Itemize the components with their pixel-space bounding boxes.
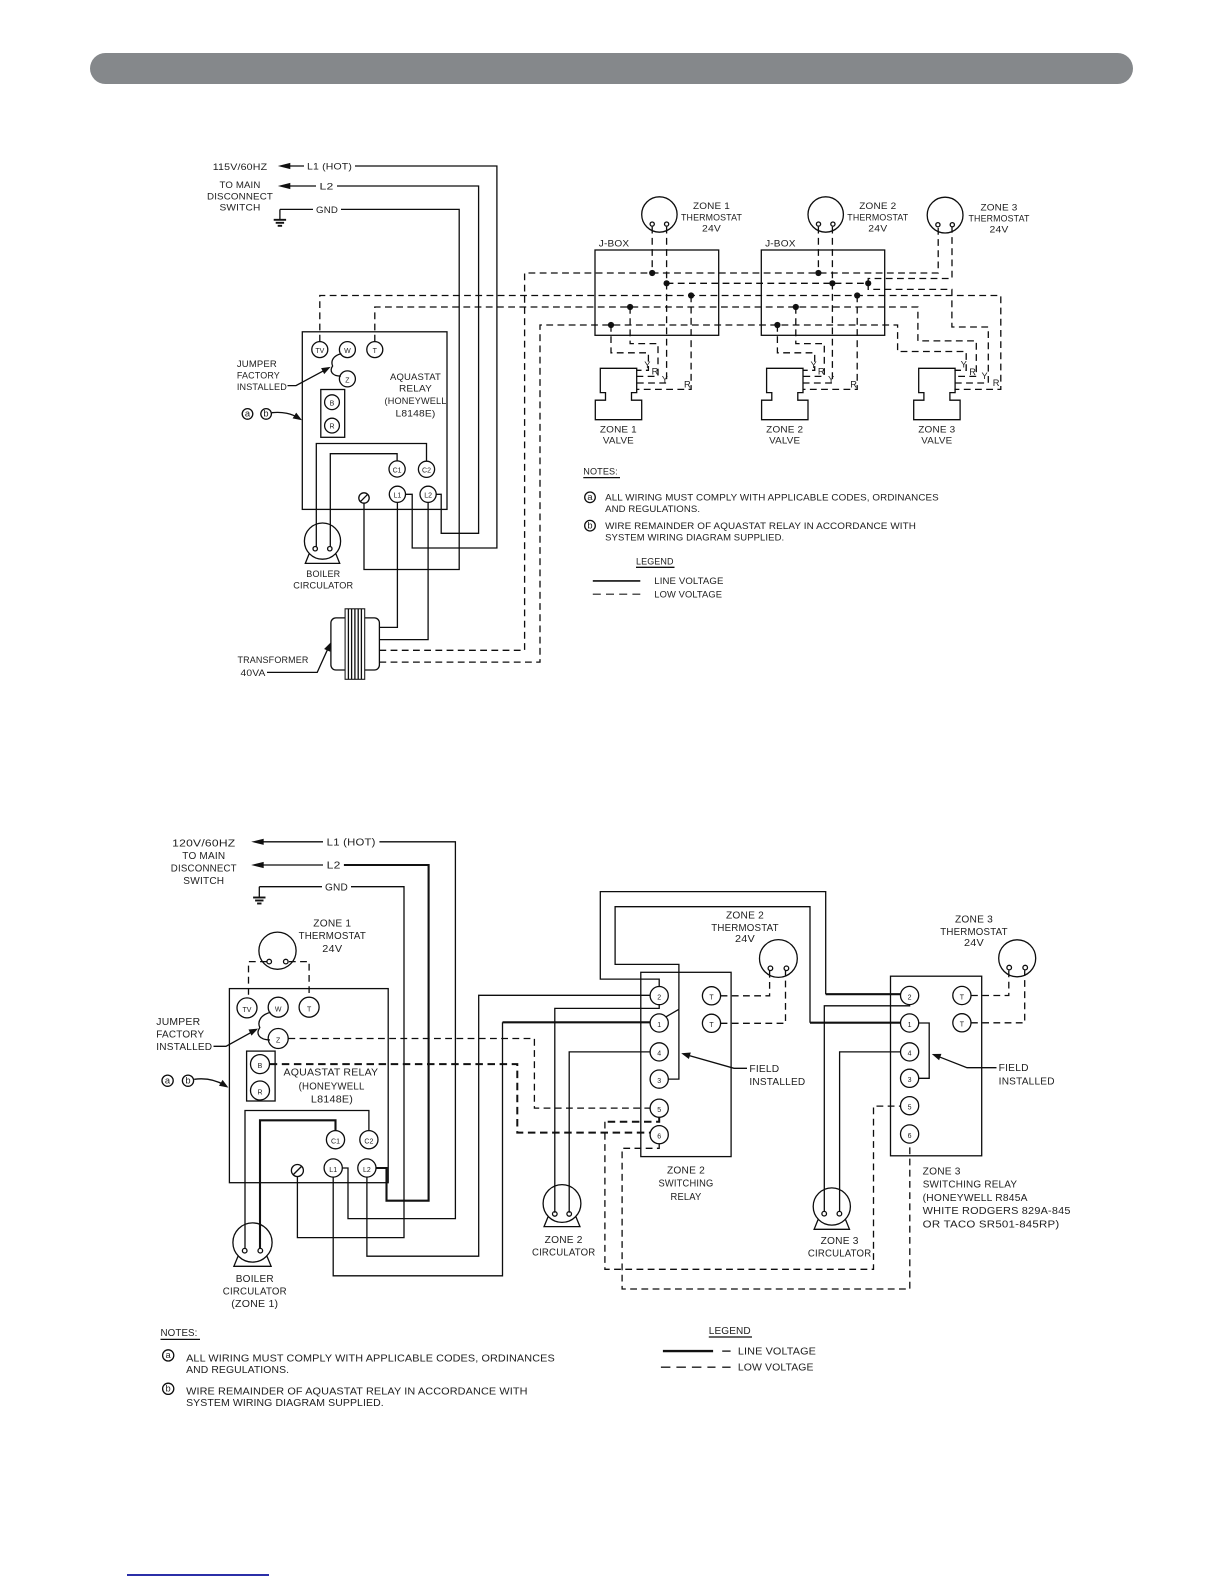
svg-text:Y: Y bbox=[662, 375, 668, 385]
terminal T bbox=[367, 342, 383, 358]
wire thermostat2 left to 24V line bbox=[817, 227, 819, 273]
terminal strip B R box bottom bbox=[247, 1051, 276, 1101]
svg-text:VALVE: VALVE bbox=[603, 436, 634, 446]
svg-text:THERMOSTAT: THERMOSTAT bbox=[969, 214, 1030, 224]
wire valve2 R to TV line bbox=[803, 296, 857, 390]
svg-text:INSTALLED: INSTALLED bbox=[156, 1042, 212, 1053]
svg-text:R: R bbox=[684, 379, 691, 389]
svg-text:Y: Y bbox=[811, 360, 817, 370]
terminal TV bottom bbox=[237, 998, 257, 1018]
svg-text:THERMOSTAT: THERMOSTAT bbox=[847, 213, 908, 223]
boiler circulator pump bbox=[304, 523, 340, 559]
terminal Z bottom bbox=[268, 1029, 288, 1049]
terminal R bbox=[325, 418, 340, 433]
svg-text:SWITCH: SWITCH bbox=[183, 876, 224, 887]
junction dot common bus corner bbox=[865, 280, 871, 286]
terminal B bottom bbox=[251, 1055, 270, 1074]
terminal R bottom bbox=[251, 1081, 270, 1100]
svg-text:OR TACO SR501-845RP): OR TACO SR501-845RP) bbox=[923, 1219, 1060, 1230]
jumper W-Z factory installed bbox=[331, 354, 341, 377]
zone3 terminal 4 bbox=[901, 1043, 919, 1061]
footer rule (blue) bbox=[127, 1574, 269, 1576]
junction dot valve2 R on TV line bbox=[854, 292, 860, 298]
svg-text:ZONE 1: ZONE 1 bbox=[313, 919, 351, 930]
svg-text:3: 3 bbox=[657, 1078, 661, 1085]
wire zone3 circulator to terminal 4 bbox=[840, 1052, 901, 1212]
wire zone2 T upper to thermostat2 bbox=[721, 971, 770, 996]
svg-text:LOW VOLTAGE: LOW VOLTAGE bbox=[738, 1363, 814, 1374]
zone2 terminal 6 bbox=[650, 1126, 668, 1144]
svg-text:CIRCULATOR: CIRCULATOR bbox=[223, 1286, 287, 1297]
wire L1 (HOT) feed bottom bbox=[251, 839, 264, 845]
wire C1 to boiler circulator bbox=[330, 454, 397, 547]
svg-text:W: W bbox=[344, 348, 351, 355]
wire TV line to valves R bbox=[320, 296, 1001, 390]
svg-text:AND REGULATIONS.: AND REGULATIONS. bbox=[186, 1365, 289, 1376]
svg-text:LINE VOLTAGE: LINE VOLTAGE bbox=[738, 1347, 816, 1358]
svg-text:TRANSFORMER: TRANSFORMER bbox=[238, 655, 309, 665]
note markers a b with leader arrow bbox=[242, 409, 253, 420]
zone 3 thermostat TSTAT3 bbox=[927, 197, 963, 233]
zone3 terminal 6 bbox=[901, 1125, 919, 1143]
terminal B bbox=[325, 395, 340, 410]
svg-text:THERMOSTAT: THERMOSTAT bbox=[940, 927, 1007, 938]
svg-text:L8148E): L8148E) bbox=[396, 409, 436, 419]
svg-text:WHITE RODGERS 829A-845: WHITE RODGERS 829A-845 bbox=[923, 1206, 1071, 1217]
svg-text:INSTALLED: INSTALLED bbox=[749, 1077, 805, 1088]
wire zone2 T lower to thermostat2 bbox=[721, 971, 786, 1024]
svg-text:FACTORY: FACTORY bbox=[237, 370, 280, 380]
zone 1 thermostat bottom TSTAT1 bbox=[259, 932, 296, 969]
ground symbol top bbox=[279, 209, 281, 219]
zone3 terminal 3 bbox=[901, 1069, 919, 1087]
svg-text:ZONE 3: ZONE 3 bbox=[923, 1166, 961, 1177]
wire GND feed top bbox=[280, 208, 313, 210]
svg-text:40VA: 40VA bbox=[241, 668, 267, 678]
zone 3 switching relay box bbox=[891, 976, 982, 1156]
terminal W bbox=[339, 342, 355, 358]
svg-text:CIRCULATOR: CIRCULATOR bbox=[532, 1248, 596, 1259]
svg-text:ALL WIRING MUST COMPLY WITH AP: ALL WIRING MUST COMPLY WITH APPLICABLE C… bbox=[186, 1353, 555, 1364]
svg-text:ZONE 2: ZONE 2 bbox=[726, 910, 764, 921]
svg-text:LINE VOLTAGE: LINE VOLTAGE bbox=[654, 576, 723, 587]
svg-text:TV: TV bbox=[243, 1007, 252, 1014]
wire valve1 R to TV line bbox=[637, 296, 691, 390]
svg-text:5: 5 bbox=[908, 1105, 912, 1112]
svg-text:SYSTEM WIRING DIAGRAM SUPPLIED: SYSTEM WIRING DIAGRAM SUPPLIED. bbox=[186, 1398, 384, 1409]
legend low voltage sample bottom bbox=[661, 1366, 716, 1368]
zone3 terminal T lower bbox=[953, 1014, 971, 1032]
note a marker top bbox=[585, 492, 596, 503]
wire C2 to boiler circulator bottom bbox=[245, 1111, 369, 1249]
zone2 terminal 3 bbox=[650, 1070, 668, 1088]
svg-text:ZONE 2: ZONE 2 bbox=[766, 424, 803, 434]
svg-text:a: a bbox=[166, 1350, 172, 1360]
svg-text:L2: L2 bbox=[424, 493, 432, 500]
legend low voltage sample top bbox=[593, 593, 641, 595]
terminal L1 bottom bbox=[324, 1159, 342, 1177]
svg-text:24V: 24V bbox=[964, 938, 984, 949]
svg-text:T: T bbox=[960, 1022, 965, 1029]
zone 1 valve V1 bbox=[595, 368, 641, 419]
wire valve1 Y to common line bbox=[611, 325, 648, 370]
wire zone3 terminal2 to zone3 circulator bbox=[824, 1005, 909, 1212]
J-BOX 2 junction box bbox=[761, 250, 884, 335]
svg-text:5: 5 bbox=[657, 1107, 661, 1114]
ground screw terminal bbox=[359, 493, 369, 503]
wire zone3 jumper terminal1 to terminal3 bbox=[919, 1023, 930, 1078]
wire thermostat common bus t1 to t2 bbox=[667, 282, 869, 284]
ground symbol bottom bbox=[258, 887, 260, 897]
zone 1 thermostat TSTAT1 bbox=[642, 197, 677, 232]
wire zone2 circulator to terminal 4 bbox=[569, 1052, 650, 1213]
terminal L2 bbox=[420, 486, 436, 502]
svg-text:SWITCH: SWITCH bbox=[220, 202, 261, 212]
svg-text:FIELD: FIELD bbox=[999, 1063, 1029, 1074]
junction dot valve2 R2 on T line bbox=[793, 304, 799, 310]
svg-text:ZONE 2: ZONE 2 bbox=[667, 1165, 705, 1176]
svg-text:R: R bbox=[969, 367, 976, 377]
svg-text:24V: 24V bbox=[322, 944, 342, 955]
svg-text:T: T bbox=[709, 995, 714, 1002]
svg-text:GND: GND bbox=[325, 882, 348, 893]
svg-text:C1: C1 bbox=[331, 1139, 340, 1146]
terminal Z bbox=[339, 371, 355, 387]
wire zone2 terminal5 chain to zone3 terminal5 bbox=[605, 1117, 659, 1121]
svg-text:(ZONE 1): (ZONE 1) bbox=[231, 1299, 278, 1310]
svg-text:1: 1 bbox=[908, 1022, 912, 1029]
svg-text:LEGEND: LEGEND bbox=[636, 556, 674, 567]
wire valve1 R2 to T line bbox=[630, 307, 658, 376]
zone 2 thermostat bottom TSTAT2 bbox=[760, 940, 798, 978]
note a marker bottom bbox=[163, 1350, 174, 1361]
svg-text:B: B bbox=[330, 400, 335, 407]
svg-text:L2: L2 bbox=[320, 181, 334, 191]
note markers a b bottom with leader arrow bbox=[162, 1075, 173, 1086]
svg-text:a: a bbox=[245, 409, 251, 419]
svg-text:4: 4 bbox=[657, 1051, 661, 1058]
svg-text:J-BOX: J-BOX bbox=[765, 238, 796, 248]
svg-text:FACTORY: FACTORY bbox=[156, 1030, 204, 1041]
wire zone2 terminal6 chain to zone3 terminal6 bbox=[622, 1143, 910, 1289]
wire Z to zone2 relay terminal 5 bbox=[288, 1039, 650, 1109]
boiler circulator pump bottom (zone 1) bbox=[233, 1223, 272, 1262]
note b marker bottom bbox=[163, 1383, 174, 1394]
svg-text:1: 1 bbox=[657, 1022, 661, 1029]
svg-text:L2: L2 bbox=[363, 1167, 371, 1174]
svg-text:NOTES:: NOTES: bbox=[161, 1328, 198, 1339]
wire T line to valves R bbox=[375, 307, 977, 376]
svg-text:24V: 24V bbox=[990, 224, 1010, 234]
svg-text:CIRCULATOR: CIRCULATOR bbox=[293, 580, 353, 590]
svg-text:Y: Y bbox=[644, 360, 650, 370]
wire L1 to transformer primary bbox=[379, 502, 397, 627]
terminal C1 bbox=[389, 461, 405, 477]
wire thermostat1 right to T bbox=[289, 962, 309, 998]
svg-text:T: T bbox=[307, 1006, 312, 1013]
svg-text:R: R bbox=[818, 367, 825, 377]
legend line voltage sample top bbox=[593, 580, 641, 582]
svg-text:C2: C2 bbox=[364, 1139, 373, 1146]
svg-text:AQUASTAT: AQUASTAT bbox=[390, 372, 441, 382]
svg-text:INSTALLED: INSTALLED bbox=[999, 1076, 1055, 1087]
note b marker top bbox=[585, 520, 596, 531]
svg-text:a: a bbox=[587, 492, 593, 502]
junction dot t2-left bbox=[815, 270, 821, 276]
legend line voltage sample bottom bbox=[663, 1350, 713, 1352]
wire neutral chain zone2 to zone3 bbox=[600, 892, 825, 995]
svg-text:CIRCULATOR: CIRCULATOR bbox=[808, 1248, 872, 1259]
svg-text:R: R bbox=[257, 1089, 262, 1096]
wire common bus to thermostat3 right bbox=[868, 227, 952, 284]
svg-text:6: 6 bbox=[657, 1134, 661, 1141]
wire zone2 terminal2 to zone2 circulator bbox=[555, 1005, 659, 1213]
zone2 terminal 5 bbox=[650, 1099, 668, 1117]
svg-text:THERMOSTAT: THERMOSTAT bbox=[711, 923, 778, 934]
wire L2 feed top bbox=[278, 183, 291, 189]
terminal T bottom bbox=[299, 997, 319, 1017]
aquastat relay U1 box bottom bbox=[229, 989, 388, 1183]
svg-text:ZONE 3: ZONE 3 bbox=[821, 1236, 859, 1247]
svg-text:ZONE 1: ZONE 1 bbox=[693, 201, 730, 211]
svg-text:6: 6 bbox=[908, 1133, 912, 1140]
svg-text:GND: GND bbox=[316, 205, 338, 215]
wire zone3 T lower to thermostat3 bbox=[971, 970, 1025, 1023]
svg-text:AND REGULATIONS.: AND REGULATIONS. bbox=[605, 504, 700, 515]
svg-text:R: R bbox=[652, 367, 659, 377]
zone3 terminal 2 bbox=[901, 986, 919, 1004]
svg-text:(HONEYWELL: (HONEYWELL bbox=[385, 396, 447, 406]
svg-text:RELAY: RELAY bbox=[399, 384, 432, 394]
svg-text:R: R bbox=[993, 378, 1000, 388]
svg-text:Z: Z bbox=[345, 377, 350, 384]
zone 2 valve V2 bbox=[762, 368, 808, 419]
svg-text:ZONE 3: ZONE 3 bbox=[955, 914, 993, 925]
svg-text:DISCONNECT: DISCONNECT bbox=[207, 191, 273, 201]
zone 3 valve V3 bbox=[914, 368, 960, 419]
svg-text:INSTALLED: INSTALLED bbox=[237, 382, 287, 392]
zone2 terminal T lower bbox=[702, 1014, 720, 1032]
svg-text:ALL WIRING MUST COMPLY WITH AP: ALL WIRING MUST COMPLY WITH APPLICABLE C… bbox=[605, 493, 939, 504]
svg-text:WIRE REMAINDER OF AQUASTAT REL: WIRE REMAINDER OF AQUASTAT RELAY IN ACCO… bbox=[186, 1386, 527, 1397]
svg-text:120V/60HZ: 120V/60HZ bbox=[172, 839, 235, 850]
svg-text:JUMPER: JUMPER bbox=[237, 359, 277, 369]
wire thermostat1 left to 24V line bbox=[651, 227, 653, 273]
svg-text:Y: Y bbox=[982, 371, 988, 381]
svg-text:FIELD: FIELD bbox=[749, 1064, 779, 1075]
svg-text:3: 3 bbox=[908, 1077, 912, 1084]
svg-text:T: T bbox=[709, 1022, 714, 1029]
wire zone3 T upper to thermostat3 bbox=[971, 970, 1009, 995]
svg-text:b: b bbox=[185, 1076, 190, 1086]
terminal TV bbox=[312, 342, 328, 358]
svg-text:Y: Y bbox=[961, 360, 967, 370]
svg-text:L1 (HOT): L1 (HOT) bbox=[327, 837, 376, 848]
svg-text:L8148E): L8148E) bbox=[311, 1094, 353, 1105]
svg-text:LOW VOLTAGE: LOW VOLTAGE bbox=[654, 590, 722, 601]
svg-text:T: T bbox=[960, 994, 965, 1001]
svg-text:a: a bbox=[165, 1076, 171, 1086]
junction dot t1-right bbox=[664, 280, 670, 286]
svg-text:THERMOSTAT: THERMOSTAT bbox=[681, 213, 742, 223]
svg-text:WIRE REMAINDER OF AQUASTAT REL: WIRE REMAINDER OF AQUASTAT RELAY IN ACCO… bbox=[605, 521, 916, 532]
svg-text:B: B bbox=[258, 1063, 263, 1070]
wire valve2 Y to common line bbox=[777, 325, 814, 370]
junction dot t2-right bbox=[829, 280, 835, 286]
svg-text:L1 (HOT): L1 (HOT) bbox=[307, 161, 352, 171]
zone2 terminal 1 bbox=[650, 1014, 668, 1032]
ground screw terminal bottom bbox=[291, 1165, 303, 1177]
svg-text:THERMOSTAT: THERMOSTAT bbox=[299, 931, 366, 942]
svg-text:R: R bbox=[850, 379, 857, 389]
svg-text:L1: L1 bbox=[329, 1167, 337, 1174]
junction dot valve1 Y on common line bbox=[608, 322, 614, 328]
wire common bus drop to valve3 Y bbox=[868, 283, 988, 383]
svg-text:L1: L1 bbox=[394, 493, 402, 500]
zone 3 circulator pump bbox=[813, 1188, 850, 1225]
svg-text:VALVE: VALVE bbox=[769, 436, 800, 446]
svg-text:BOILER: BOILER bbox=[306, 569, 340, 579]
terminal C1 bottom bbox=[326, 1131, 344, 1149]
svg-text:C1: C1 bbox=[393, 467, 402, 474]
terminal L1 bbox=[389, 486, 405, 502]
wire transformer secondary 2 common line to valves Y bbox=[379, 325, 966, 662]
wire transformer secondary 1 to 24V common line bbox=[379, 227, 938, 651]
svg-text:b: b bbox=[587, 520, 592, 530]
zone2 terminal 2 bbox=[650, 987, 668, 1005]
svg-text:RELAY: RELAY bbox=[671, 1192, 702, 1203]
wire hot chain zone2 to zone3 bbox=[666, 1009, 679, 1017]
svg-text:2: 2 bbox=[908, 994, 912, 1001]
svg-text:VALVE: VALVE bbox=[921, 436, 952, 446]
terminal C2 bottom bbox=[360, 1131, 378, 1149]
svg-text:2: 2 bbox=[657, 994, 661, 1001]
wire L2 to transformer primary bbox=[379, 502, 428, 639]
svg-text:24V: 24V bbox=[868, 224, 888, 234]
wire L1 (HOT) feed top bbox=[278, 163, 291, 169]
aquastat relay U1 box (Honeywell L8148E) bbox=[302, 332, 447, 510]
svg-text:DISCONNECT: DISCONNECT bbox=[171, 863, 237, 874]
zone 3 thermostat bottom TSTAT3 bbox=[999, 940, 1036, 977]
svg-text:ZONE 1: ZONE 1 bbox=[600, 424, 637, 434]
svg-text:24V: 24V bbox=[735, 934, 755, 945]
wire B to zone2 relay terminal 6 bbox=[270, 1064, 650, 1133]
zone2 terminal 4 bbox=[650, 1043, 668, 1061]
svg-text:TO MAIN: TO MAIN bbox=[220, 180, 261, 190]
svg-text:J-BOX: J-BOX bbox=[599, 238, 630, 248]
wire zone2 jumper terminal1 to terminal3 bbox=[668, 1009, 679, 1079]
terminal strip B R box bbox=[321, 390, 345, 438]
wire thermostat1 right to valve1 Y bbox=[637, 227, 667, 383]
junction dot valve2 Y on common line bbox=[774, 322, 780, 328]
wire GND feed bottom bbox=[259, 886, 322, 888]
zone 2 thermostat TSTAT2 bbox=[808, 197, 843, 232]
svg-text:C2: C2 bbox=[422, 468, 431, 475]
svg-text:(HONEYWELL R845A: (HONEYWELL R845A bbox=[923, 1193, 1028, 1204]
svg-text:R: R bbox=[329, 424, 334, 431]
junction dot t1-left bbox=[649, 270, 655, 276]
wire C1 to boiler circulator bottom bbox=[260, 1120, 336, 1248]
terminal W bottom bbox=[268, 997, 288, 1017]
wire thermostat1 left to TV bbox=[249, 962, 267, 998]
transformer T1 40VA bbox=[331, 618, 380, 670]
svg-text:TO MAIN: TO MAIN bbox=[182, 851, 225, 862]
wire thermostat2 right to valve2 Y bbox=[803, 227, 832, 383]
svg-text:TV: TV bbox=[315, 348, 324, 355]
wire L1 to switching relays line hot bbox=[333, 1022, 502, 1276]
junction dot valve1 R2 on T line bbox=[627, 304, 633, 310]
svg-text:ZONE 3: ZONE 3 bbox=[918, 424, 955, 434]
wire C2 to boiler circulator bbox=[316, 444, 426, 547]
svg-text:BOILER: BOILER bbox=[236, 1274, 274, 1285]
terminal C2 bbox=[418, 461, 434, 477]
svg-text:Z: Z bbox=[276, 1038, 281, 1045]
svg-text:JUMPER: JUMPER bbox=[156, 1017, 200, 1028]
svg-text:24V: 24V bbox=[702, 224, 722, 234]
svg-text:b: b bbox=[166, 1384, 171, 1394]
svg-text:NOTES:: NOTES: bbox=[583, 467, 618, 478]
svg-text:115V/60HZ: 115V/60HZ bbox=[213, 162, 268, 172]
svg-text:W: W bbox=[275, 1006, 282, 1013]
svg-text:LEGEND: LEGEND bbox=[709, 1326, 751, 1337]
zone 2 circulator pump bbox=[543, 1185, 581, 1223]
svg-text:ZONE 3: ZONE 3 bbox=[981, 202, 1018, 212]
J-BOX 1 junction box bbox=[595, 250, 719, 335]
header bar bbox=[90, 53, 1133, 84]
wire valve2 R2 to T line bbox=[796, 307, 825, 376]
svg-text:SWITCHING RELAY: SWITCHING RELAY bbox=[923, 1180, 1018, 1191]
wire L2 feed bottom bbox=[251, 862, 264, 868]
svg-text:SYSTEM WIRING DIAGRAM SUPPLIED: SYSTEM WIRING DIAGRAM SUPPLIED. bbox=[605, 533, 784, 544]
wire L2 to switching relays neutral bbox=[367, 995, 650, 1256]
svg-text:T: T bbox=[373, 348, 378, 355]
zone3 terminal 5 bbox=[901, 1097, 919, 1115]
zone2 terminal T upper bbox=[702, 987, 720, 1005]
zone3 terminal T upper bbox=[953, 986, 971, 1004]
svg-text:ZONE 2: ZONE 2 bbox=[545, 1235, 583, 1246]
terminal L2 bottom bbox=[358, 1159, 376, 1177]
svg-text:(HONEYWELL: (HONEYWELL bbox=[299, 1081, 365, 1092]
svg-text:b: b bbox=[263, 409, 268, 419]
svg-text:ZONE 2: ZONE 2 bbox=[859, 201, 896, 211]
svg-text:AQUASTAT RELAY: AQUASTAT RELAY bbox=[284, 1067, 379, 1078]
junction dot valve1 R on TV line bbox=[688, 292, 694, 298]
zone 2 switching relay box bbox=[641, 972, 731, 1156]
zone3 terminal 1 bbox=[901, 1014, 919, 1032]
svg-text:4: 4 bbox=[908, 1051, 912, 1058]
svg-text:L2: L2 bbox=[327, 861, 341, 872]
jumper W-Z factory installed bottom bbox=[258, 1012, 271, 1040]
svg-text:SWITCHING: SWITCHING bbox=[659, 1179, 714, 1190]
svg-text:Y: Y bbox=[828, 375, 834, 385]
